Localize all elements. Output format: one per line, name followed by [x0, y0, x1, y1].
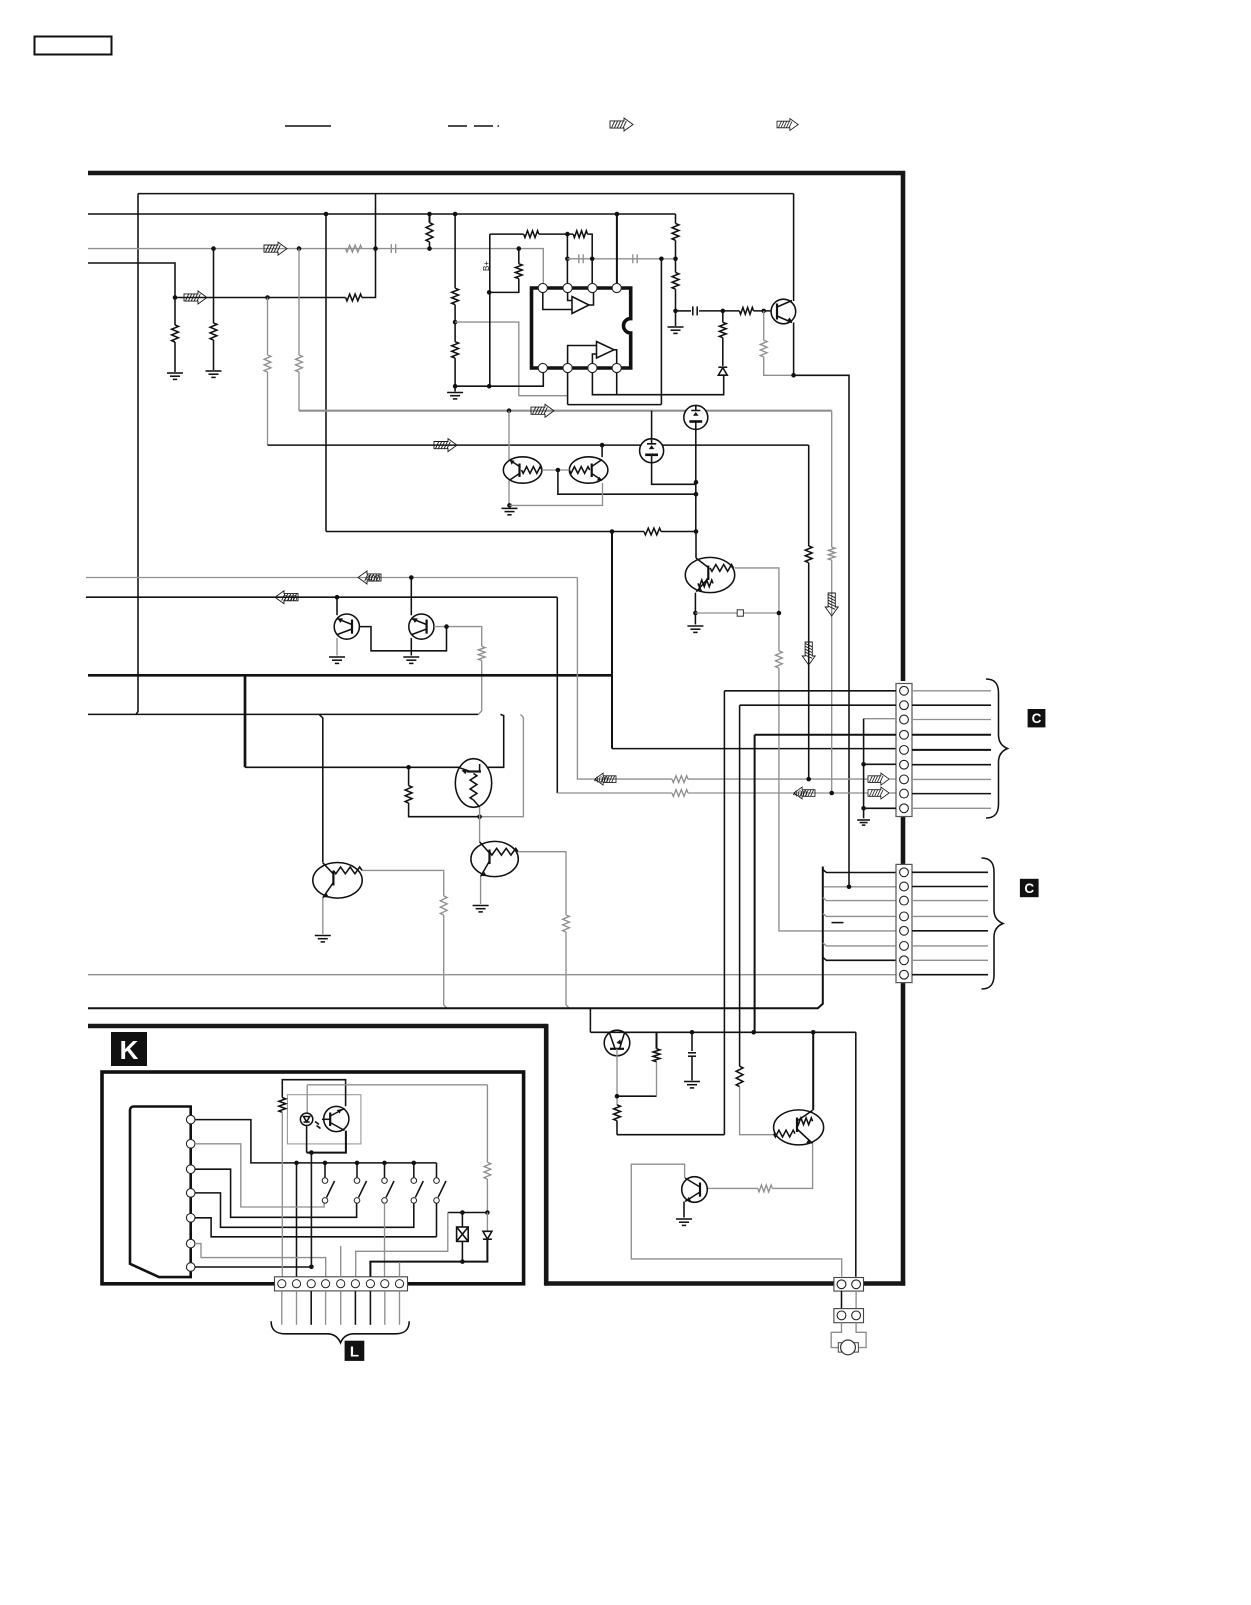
wire Q9 base to Q10 base — [359, 627, 446, 651]
polarity dash label — [832, 922, 844, 924]
main board outline (thick top edge) — [88, 171, 905, 176]
CN-C pin 3 — [900, 896, 909, 905]
resistor on pin8 line — [672, 790, 688, 797]
junction — [861, 806, 866, 811]
wire x=267.5 to y=445 line — [267, 372, 269, 445]
junction — [453, 212, 458, 217]
connector CN-L body — [275, 1277, 408, 1291]
IC pin 7 (bottom) — [563, 363, 572, 372]
wire Q10 emitter — [410, 638, 412, 656]
wire IC pin1 bottom / ground rail — [455, 372, 543, 387]
wire y=263 stub — [88, 263, 175, 298]
CN-K pin 6 — [186, 1239, 195, 1248]
signal arrow left on pin7 line with net number — [595, 773, 616, 785]
wire CN-K pin5 to SW5 — [195, 1218, 437, 1237]
switch SW4 — [413, 1163, 415, 1178]
IC pin 8 (bottom) — [538, 363, 547, 372]
wire riser x=590.4 — [589, 1008, 591, 1032]
wire chamfer to Q7 collector — [319, 714, 323, 862]
signal arrow to conn pin7 — [868, 773, 889, 785]
switch SW2 — [356, 1163, 358, 1178]
jumper J1 — [737, 610, 743, 616]
resistor on y=297.5 — [346, 294, 362, 301]
CN-B pin 6 — [900, 760, 909, 769]
wire CN-K pin1 to switch bus — [195, 1120, 437, 1163]
capacitor y=310.9 — [693, 306, 697, 315]
wire x=326 vertical — [325, 214, 327, 532]
op-amp IC U1 (thick outline with notch) — [532, 288, 631, 368]
signal arrow on y=410.7 — [531, 404, 554, 417]
signal arrow left on pin8 line with net number — [794, 787, 815, 799]
svg-text:K: K — [120, 1035, 139, 1065]
resistor x=455.1 upper — [452, 288, 459, 304]
resistor x=808.7 — [805, 546, 812, 563]
CN-L pin 7 — [366, 1280, 374, 1288]
CN-L pin 1 — [278, 1280, 286, 1288]
resistor R base lower — [614, 1105, 621, 1121]
ground — [447, 393, 463, 399]
digital transistor Q11 (vertical package) — [455, 759, 491, 808]
wire x=831.7 branch — [831, 411, 833, 548]
wire Q14 emitter — [772, 1144, 812, 1189]
wire x=213.5 — [213, 249, 215, 323]
wire conn2 pin2 link — [824, 886, 896, 888]
main board outline (thick right edge, between connectors) — [901, 814, 906, 866]
CN-B pin 9 harness lead — [912, 807, 991, 809]
junction — [761, 309, 766, 314]
wire x=455.1 vertical — [454, 214, 456, 288]
resistor x=408.6 — [405, 786, 412, 803]
junction — [412, 1161, 417, 1166]
wire Q5 collector — [508, 411, 510, 460]
CN-K pin 2 — [186, 1140, 195, 1149]
wire collector loop / resistor to strip pin1 — [282, 1080, 345, 1107]
junction — [861, 762, 866, 767]
CN-L pin 1 harness lead — [281, 1291, 283, 1325]
wire VCC rail y=214 — [88, 213, 676, 215]
capacitor C y=258.8 right — [633, 254, 637, 263]
junction — [427, 212, 432, 217]
wire IC pin4 bottom stub — [616, 372, 618, 395]
resistor y=531.5 — [644, 528, 661, 535]
resistor x=722.8 — [719, 322, 726, 337]
CN-C pin 6 — [900, 942, 909, 951]
IC pin 6 (bottom) — [588, 363, 597, 372]
harness brace (CN-C) — [982, 858, 1004, 989]
harness brace (CN-L) — [271, 1321, 409, 1343]
junction — [610, 529, 615, 534]
junction — [309, 1150, 314, 1155]
wire left frame vertical x=138 — [136, 194, 138, 715]
wire gray y=577.5 — [86, 577, 577, 579]
resistor x=675.5 lower — [672, 273, 679, 290]
wire Q9 emitter — [336, 638, 338, 656]
junction — [615, 1094, 620, 1099]
wire CN-A to CN-D — [841, 1291, 843, 1309]
K section box (thick) — [102, 1072, 524, 1284]
wire y=613 with jumper — [695, 612, 737, 614]
junction — [453, 384, 458, 389]
CN-L pin 7 harness lead — [369, 1291, 371, 1325]
CN-L pin 8 harness lead — [384, 1291, 386, 1325]
CN-L pin 3 harness lead — [310, 1291, 312, 1325]
wire thick diode return to strip pin7 — [370, 1239, 487, 1278]
junction — [690, 1030, 695, 1035]
wire — [699, 310, 739, 312]
wire CN-K pin4 to SW4 — [195, 1193, 414, 1227]
wire Q10 base out — [434, 627, 482, 647]
wire x=267.5 down — [267, 298, 269, 356]
wire CN-B pin9 feed — [864, 807, 896, 809]
CN-B pin 7 harness lead — [912, 778, 991, 780]
wire Q9 collector — [336, 597, 338, 615]
resistor on pin7 line — [672, 776, 688, 783]
wire — [722, 311, 724, 323]
CN-C pin 2 — [900, 882, 909, 891]
wire x=808.7 branch — [808, 445, 810, 546]
wire y=531.5 link — [326, 531, 644, 533]
CN-B pin 2 — [900, 701, 909, 710]
wire Q2 collector — [793, 194, 795, 301]
CN-C pin 4 harness lead — [912, 915, 988, 917]
junction — [694, 492, 699, 497]
wire rail through Q13 — [604, 1031, 630, 1033]
IC pin 3 (top) — [588, 283, 597, 292]
CN-A pin 2 — [852, 1280, 861, 1289]
optocoupler phototransistor Q16 — [322, 1106, 349, 1131]
thick power line y=675.3 — [88, 674, 612, 677]
wire LED cathode down — [306, 1126, 308, 1153]
MOSFET Q4 — [640, 439, 664, 463]
wire y=597.2 — [86, 596, 557, 598]
connector CN-B body — [896, 684, 912, 817]
resistor R y=234.1 left — [524, 231, 539, 238]
junction — [565, 257, 570, 262]
CN-L pin 8 — [381, 1280, 389, 1288]
capacitor in series y=248.6 — [391, 244, 395, 253]
wire buzzer rail y=1212.5 — [448, 1212, 488, 1214]
CN-C pin 1 — [900, 868, 909, 877]
CN-L pin 5 harness lead — [340, 1291, 342, 1325]
wire y=767.3 — [245, 714, 504, 767]
resistor x=429.5 — [426, 223, 433, 242]
junction — [335, 595, 340, 600]
wire — [764, 357, 794, 375]
ground — [315, 936, 331, 942]
wire — [486, 1179, 488, 1213]
wire CN-K pin3 to SW2 — [195, 1169, 357, 1217]
wire rail to strip pin6 — [356, 1213, 448, 1278]
junction — [294, 1161, 299, 1166]
wire — [454, 358, 456, 391]
wire LED anode feed — [307, 1084, 487, 1086]
label C (upper) — [1028, 709, 1046, 727]
wire CN-L pin9 stub — [399, 1262, 401, 1277]
signal arrow left y=597.2 with net number — [275, 591, 298, 604]
junction — [590, 257, 595, 262]
junction — [297, 246, 302, 251]
wire — [409, 803, 480, 817]
wire to bus — [444, 915, 447, 1008]
ground — [676, 1219, 692, 1225]
CN-L pin 5 — [337, 1280, 345, 1288]
CN-C pin 4 — [900, 912, 909, 921]
svg-text:400: 400 — [594, 775, 608, 785]
wire x=523.4 from bus — [480, 714, 524, 816]
junction — [427, 246, 432, 251]
junction — [324, 212, 329, 217]
CN-A pin 1 — [837, 1280, 846, 1289]
buzzer BZ (box with X) — [461, 1213, 463, 1228]
wire IC pin4 top thick stub — [616, 214, 618, 284]
wire elbow to conn B pin5 — [612, 748, 896, 750]
legend solid-line sample — [285, 125, 331, 127]
signal arrow on y=445.1 — [434, 439, 457, 452]
wire emitter resistor branch — [763, 311, 765, 340]
label L — [345, 1341, 365, 1361]
wire y=297.5 with resistor — [175, 297, 346, 299]
wire CN-K pin2 to SW1 — [195, 1144, 324, 1207]
wire x=299 down — [298, 249, 300, 355]
CN-C pin 1 harness lead — [912, 871, 988, 873]
digital transistor Q14 (with built-in resistors) — [774, 1110, 824, 1145]
wire CN-K pin7 to strip pin3 junction — [195, 1266, 311, 1268]
ground — [687, 626, 703, 632]
signal arrow left y=577.5 with net number — [358, 571, 381, 584]
switch SW3 — [384, 1163, 386, 1178]
wire Q12 base out — [518, 852, 566, 915]
digital transistor Q6 (with built-in resistor) — [569, 457, 608, 483]
wire x=612 vertical — [611, 532, 613, 749]
wire motor loop left — [831, 1323, 841, 1348]
wire Q8 collector — [695, 532, 697, 559]
motor M — [841, 1340, 856, 1355]
connector CN-C body — [896, 864, 912, 982]
resistor base Q15 — [758, 1185, 773, 1192]
wire — [539, 233, 573, 235]
wire Q6 emitter return — [510, 483, 603, 506]
transistor Q10 (PNP) — [409, 614, 434, 639]
IC pin 4 (top) — [612, 283, 621, 292]
junction — [829, 791, 834, 796]
junction — [556, 468, 561, 473]
wire Q8 base out — [735, 568, 779, 651]
CN-K pin 4 — [186, 1189, 195, 1198]
resistor on y=248.6 — [346, 245, 362, 252]
junction — [173, 295, 178, 300]
wire — [889, 778, 896, 780]
wire — [566, 932, 569, 1008]
wire box top rail y=1032.3 — [590, 1031, 855, 1033]
wire gray bias path — [455, 322, 567, 396]
wire Q5-Q6 base link — [542, 469, 569, 471]
junction — [487, 384, 492, 389]
wire SW5 down — [436, 1203, 438, 1237]
wire Q8 emitter — [694, 593, 696, 625]
op-amp A (upper) inside U1 — [543, 293, 594, 314]
wire CN-B pin4 feed thick — [755, 734, 896, 736]
CN-K pin 1 — [186, 1115, 195, 1124]
resistor y=310.9 — [739, 308, 753, 315]
resistor x=518.8 — [515, 264, 522, 279]
wire — [661, 531, 696, 533]
wire Q10 collector — [410, 578, 412, 616]
resistor x=267.5 — [264, 355, 271, 372]
wire — [707, 1187, 758, 1189]
svg-text:200: 200 — [283, 593, 297, 603]
wire Q7 base out — [362, 870, 444, 896]
junction — [444, 624, 449, 629]
svg-text:L: L — [350, 1344, 359, 1361]
connector CN-D (2-pin) — [834, 1309, 864, 1323]
CN-K pin 7 — [186, 1263, 195, 1272]
wire to strip pin3 — [310, 1153, 312, 1267]
junction — [673, 257, 678, 262]
wire pin7 path — [577, 578, 672, 780]
wire Q7 emitter to ground — [322, 898, 324, 934]
CN-B pin 4 — [900, 730, 909, 739]
wire to pin3 riser — [588, 234, 593, 284]
junction — [211, 246, 216, 251]
ground — [502, 508, 518, 514]
wire — [889, 792, 896, 794]
wire x=408.6 down — [408, 767, 410, 785]
junction — [460, 1259, 465, 1264]
signal arrow down x=831.7 — [825, 593, 838, 616]
CN-B pin 5 — [900, 746, 909, 755]
junction — [485, 1210, 490, 1215]
wire long feed y=1008.3 — [88, 867, 823, 1009]
wire Q3 drain down — [695, 429, 697, 531]
ground — [857, 820, 870, 825]
label box (top-left) — [35, 37, 112, 55]
wire emitter thick path — [307, 1131, 346, 1153]
wire chamfer to conn2 pin3 — [823, 898, 896, 901]
junction — [615, 212, 620, 217]
wire feedback y=234.1 — [490, 233, 524, 235]
CN-C pin 7 harness lead — [912, 959, 988, 961]
junction — [453, 320, 458, 325]
junction — [507, 503, 512, 508]
junction — [847, 885, 852, 890]
resistor x=481.7 — [478, 646, 485, 660]
CN-C pin 5 harness lead — [912, 930, 988, 932]
junction — [811, 1030, 816, 1035]
wire SW3 to strip pin8 — [384, 1203, 386, 1278]
wire Q4 drain to supply — [651, 411, 653, 439]
wire x=778.9 to conn2 pin5 — [779, 668, 896, 931]
junction — [791, 373, 796, 378]
IC pin 1 (top) — [538, 283, 547, 292]
IC pin 5 (bottom) — [612, 363, 621, 372]
legend hatched arrow sample — [610, 118, 633, 131]
svg-text:400: 400 — [793, 789, 807, 799]
wire bias resistor riser — [656, 1062, 658, 1097]
wire long gray y=974.7 — [88, 974, 896, 976]
resistor R y=234.1 right — [573, 231, 587, 238]
wire y=404.6 — [568, 404, 662, 406]
resistor R x=175 to ground — [172, 325, 179, 342]
junction — [373, 246, 378, 251]
wire digital pair mid tap — [558, 470, 696, 494]
wire bus y=714.4 — [88, 713, 478, 715]
junction — [355, 1161, 360, 1166]
wire thick stub — [656, 1032, 658, 1049]
svg-text:B+: B+ — [482, 261, 491, 271]
wire — [675, 240, 677, 272]
wire x=518.8 — [518, 249, 520, 264]
transistor Q9 (PNP) — [334, 614, 359, 639]
junction — [406, 765, 411, 770]
wire Q4 source path — [652, 463, 696, 485]
CN-L pin 6 — [351, 1280, 359, 1288]
junction — [309, 1265, 314, 1270]
capacitor C+ stub — [691, 1032, 693, 1051]
wire base-bias link — [617, 1095, 657, 1097]
op-amp B (lower) inside U1 — [568, 342, 617, 364]
CN-C pin 8 harness lead — [912, 974, 988, 976]
bottom-right box thick left edge — [544, 1024, 549, 1285]
junction — [673, 309, 678, 314]
ground — [403, 657, 419, 663]
junction — [382, 1161, 387, 1166]
svg-text:400: 400 — [366, 573, 380, 583]
CN-B pin 9 — [900, 804, 909, 813]
wire — [429, 242, 431, 249]
CN-C pin 7 — [900, 956, 909, 965]
wire pin8 path — [556, 597, 558, 793]
CN-B pin 8 harness lead — [912, 793, 991, 795]
wire — [454, 305, 456, 342]
CN-B pin 4 harness lead — [912, 734, 991, 736]
CN-L pin 9 — [395, 1280, 403, 1288]
CN-L pin 2 harness lead — [296, 1291, 298, 1325]
optocoupler light arrows — [315, 1122, 321, 1129]
svg-text:C: C — [1032, 711, 1042, 726]
CN-C pin 3 harness lead — [912, 900, 988, 902]
junction — [694, 529, 699, 534]
signal arrow to conn pin8 — [868, 787, 889, 799]
junction — [721, 309, 726, 314]
diode D (anode up) — [718, 367, 727, 375]
resistor R x=213.5 to ground — [210, 323, 217, 340]
wire Q2 emitter — [793, 323, 795, 376]
transistor Q15 (NPN, mirrored) — [682, 1177, 708, 1203]
thick bus line to K-box (y=1026) — [88, 1024, 548, 1029]
wire CN-K pin6 to strip pin4 — [195, 1244, 326, 1278]
junction — [323, 1161, 328, 1166]
IC pin 2 (top) — [563, 283, 572, 292]
main board outline (thick right edge, lower) — [901, 981, 906, 1286]
CN-L pin 4 harness lead — [325, 1291, 327, 1325]
junction — [487, 290, 492, 295]
svg-text:C: C — [1024, 881, 1034, 896]
ground — [167, 373, 183, 379]
legend small hatched arrow sample — [777, 119, 798, 131]
resistor x=455.1 lower — [452, 342, 459, 358]
connector CN-A (2-pin) — [834, 1278, 864, 1292]
wire CN-L pin5 stub — [340, 1246, 342, 1277]
resistor x=299 — [296, 355, 303, 372]
optocoupler outline (gray) — [287, 1095, 361, 1144]
ground — [473, 906, 489, 912]
CN-B pin 3 — [900, 715, 909, 724]
wire B+ branch x=489.8 — [489, 234, 491, 386]
junction — [460, 1210, 465, 1215]
digital transistor Q7 (with built-in resistor) — [313, 863, 362, 899]
wire IC pin3 bottom to diode — [592, 372, 723, 395]
CN-B pin 5 harness lead — [912, 749, 991, 751]
